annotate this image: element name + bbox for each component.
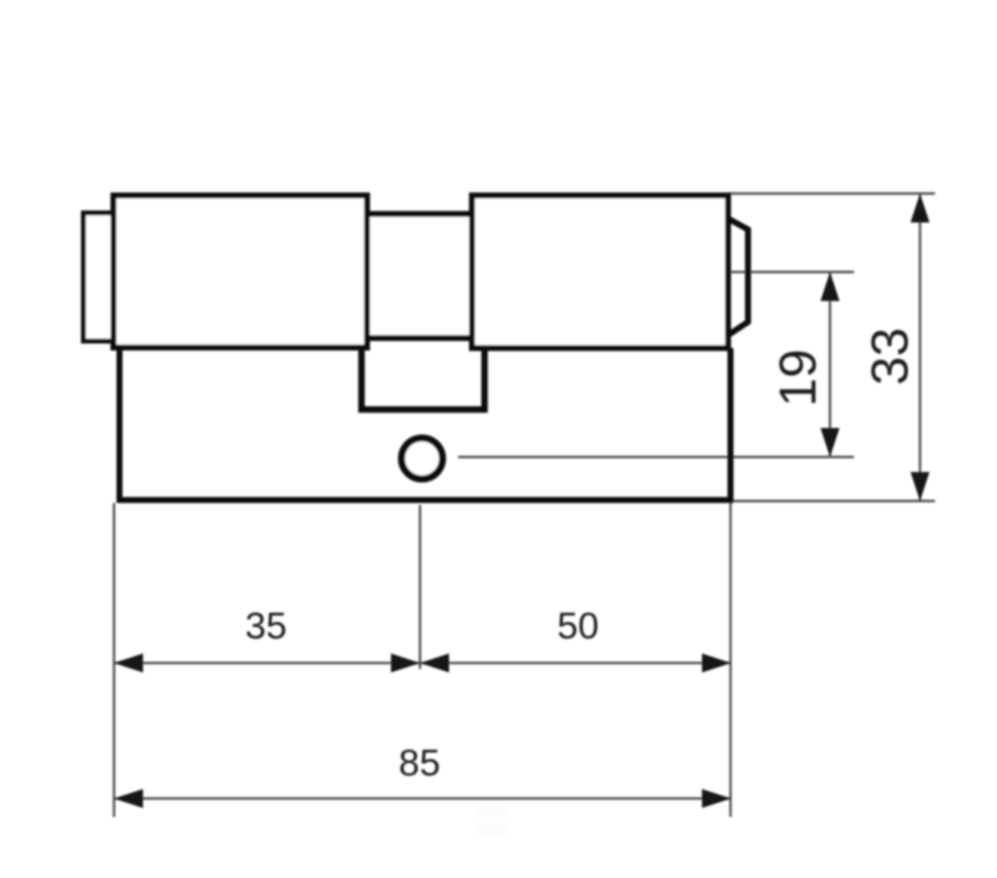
leader line from circle / extension line 19 bottom (458, 456, 854, 458)
left barrel (114, 196, 368, 348)
fixing screw hole circle (402, 438, 443, 479)
arrowhead 50 left (420, 654, 449, 673)
svg-text:33: 33 (862, 328, 920, 386)
faint watermark remnant lower (477, 824, 508, 834)
arrowhead 35 right (391, 654, 420, 673)
extension line left (113, 503, 115, 817)
faint watermark remnant upper (476, 807, 508, 817)
arrowhead 35 left (114, 654, 143, 673)
svg-text:85: 85 (399, 742, 441, 784)
dimension line 35-50 (114, 662, 731, 664)
arrowhead 33 down (911, 472, 930, 501)
cam lobe (729, 219, 748, 335)
dimension line 33 (919, 194, 921, 502)
dimension line 85 (114, 797, 731, 799)
middle plug (362, 347, 485, 410)
arrowhead 19 up (821, 272, 840, 301)
arrowhead 85 left (114, 789, 143, 808)
extension line right (729, 503, 731, 817)
middle bridge (367, 214, 472, 338)
svg-text:35: 35 (245, 605, 287, 647)
extension line 19 top (731, 271, 854, 273)
arrowhead 85 right (702, 789, 731, 808)
extension line middle (419, 505, 421, 669)
svg-text:50: 50 (557, 605, 599, 647)
right barrel (472, 196, 728, 349)
arrowhead 33 up (911, 194, 930, 223)
extension line 33 bottom (732, 500, 935, 502)
arrowhead 19 down (821, 428, 840, 457)
left end cap (84, 213, 114, 341)
extension line 33 top (728, 192, 935, 194)
arrowhead 50 right (702, 654, 731, 673)
svg-text:19: 19 (770, 349, 828, 407)
housing body (120, 348, 731, 500)
dimension line 19 (829, 272, 831, 457)
